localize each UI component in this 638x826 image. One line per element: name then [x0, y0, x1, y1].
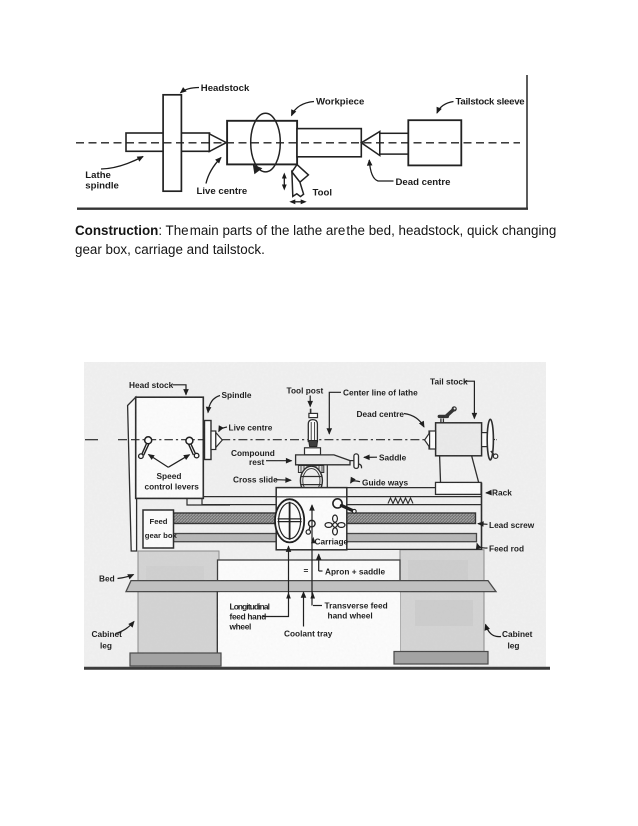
- scan noise overlay: [84, 362, 546, 668]
- svg-text:Lathe: Lathe: [85, 170, 111, 181]
- tailstock body: [436, 423, 482, 456]
- bed right end edge: [481, 483, 483, 551]
- tool clamp dark block: [309, 441, 318, 447]
- comb strip under compound rest: [298, 466, 323, 473]
- left cabinet leg: [138, 551, 219, 653]
- apron leader arrow: [318, 554, 320, 571]
- compound rest plate: [296, 455, 350, 465]
- tool post base block: [305, 448, 321, 455]
- saddle piece: [354, 454, 359, 469]
- longitudinal hand wheel: [275, 499, 304, 542]
- cross slide right edge: [326, 465, 328, 488]
- headstock side panel: [128, 397, 137, 551]
- tailstock handwheel axis: [482, 439, 495, 441]
- bed way line top: [276, 487, 482, 489]
- svg-text:Dead centre: Dead centre: [396, 177, 451, 188]
- right cabinet leg: [400, 550, 484, 652]
- lathe spindle bar: [126, 133, 210, 151]
- label Feed gear box: [143, 510, 174, 548]
- live centre (bottom): [211, 431, 216, 450]
- frame bottom border: [77, 207, 528, 209]
- bed way line lower: [202, 504, 482, 506]
- svg-text:spindle: spindle: [85, 181, 119, 192]
- tailstock quill: [429, 431, 436, 449]
- tailstock crank knob: [491, 451, 495, 455]
- tailstock sleeve body: [408, 120, 461, 165]
- dead centre cone (bottom): [425, 433, 430, 447]
- frame right border: [526, 75, 528, 209]
- label Transverse feed hand wheel: [313, 605, 322, 607]
- ground line: [84, 667, 550, 670]
- rotation arc on workpiece: [251, 113, 281, 172]
- carriage leader line: [311, 505, 313, 606]
- tailstock pedestal: [440, 456, 480, 485]
- transverse hand wheel (4 lobes): [333, 523, 337, 527]
- svg-text:Live centre: Live centre: [197, 186, 248, 197]
- tailstock lock lever: [440, 419, 442, 424]
- svg-text:Cabinet: Cabinet: [502, 629, 533, 639]
- centerline stray dash left: [85, 439, 98, 441]
- tailstock base: [436, 482, 482, 494]
- svg-text:Tool: Tool: [313, 188, 333, 199]
- figure background wash: [84, 362, 546, 670]
- headstock body: [136, 397, 204, 498]
- longitudinal wheel leader: [263, 546, 289, 616]
- workpiece right stub bar: [297, 129, 361, 157]
- feed rod (grey strip): [174, 534, 477, 542]
- left foot: [130, 653, 221, 666]
- cross slide barrel: [300, 466, 322, 495]
- chip pan white box: [218, 560, 401, 581]
- svg-text:leg: leg: [508, 641, 520, 651]
- svg-text:Headstock: Headstock: [201, 83, 250, 94]
- carriage lock knob: [333, 499, 342, 508]
- lead screw (hatched strip): [174, 513, 476, 524]
- rack teeth: [388, 498, 413, 504]
- small crank handle: [309, 520, 316, 527]
- centerline of lathe (bottom): [118, 439, 497, 441]
- step under headstock: [186, 491, 202, 505]
- headstock bottom step: [187, 498, 230, 505]
- tool post stem: [310, 409, 312, 414]
- bed bottom line right of carriage: [347, 548, 482, 550]
- svg-text:Tailstock sleeve: Tailstock sleeve: [456, 97, 525, 108]
- white area between legs: [217, 592, 400, 666]
- svg-text:Workpiece: Workpiece: [316, 97, 364, 108]
- live centre cone (top figure): [209, 134, 226, 152]
- tool vertical double arrow: [283, 177, 285, 187]
- centerline across headstock face: [131, 439, 210, 441]
- coolant tray left wall line: [216, 592, 218, 657]
- coolant tray leader: [303, 592, 305, 626]
- dead centre shank: [380, 133, 409, 154]
- carriage box: [276, 488, 347, 550]
- headstock plate: [163, 95, 181, 191]
- tool horizontal double arrow: [293, 201, 303, 203]
- bed way line middle: [186, 496, 482, 498]
- bed tray plate (wide grey strip): [126, 581, 496, 592]
- tool post T cap: [309, 413, 318, 417]
- tool post barrel: [308, 420, 317, 442]
- tool (top figure): [292, 165, 309, 183]
- right foot: [394, 652, 488, 665]
- tailstock handwheel: [487, 419, 493, 460]
- workpiece: [227, 121, 297, 165]
- dead centre cone (top figure): [361, 132, 380, 156]
- tailstock handwheel hub: [482, 433, 488, 447]
- speed control lever right: [186, 437, 193, 444]
- speed control lever left: [145, 437, 152, 444]
- centerline (top figure): [76, 142, 520, 144]
- spindle block: [205, 421, 212, 460]
